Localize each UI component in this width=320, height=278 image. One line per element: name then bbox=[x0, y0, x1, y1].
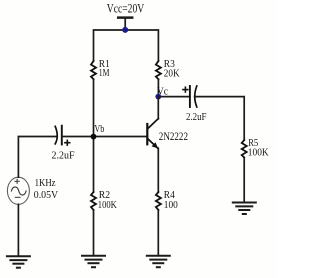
svg-text:2.2uF: 2.2uF bbox=[52, 150, 75, 161]
wire R3 bottom to Vc bbox=[157, 79, 159, 96]
transistor Q1 emitter diagonal bbox=[148, 139, 158, 149]
capacitor C2 straight plate bbox=[189, 86, 191, 107]
svg-text:100: 100 bbox=[164, 200, 178, 211]
resistor R5 bbox=[242, 140, 247, 158]
svg-text:1M: 1M bbox=[99, 68, 110, 79]
capacitor C1 curved plate bbox=[55, 126, 57, 144]
ground (under R2) bbox=[82, 256, 105, 268]
wire R5 to ground bbox=[243, 158, 245, 203]
svg-text:20K: 20K bbox=[164, 69, 180, 80]
AC source - mark bbox=[15, 196, 20, 198]
wire R1 bottom to Vb bbox=[93, 79, 95, 192]
wire source top to input line bbox=[18, 137, 55, 178]
resistor R2 bbox=[91, 192, 96, 210]
svg-text:2N2222: 2N2222 bbox=[159, 130, 188, 143]
AC source + mark bbox=[15, 179, 19, 183]
AC source sine wave bbox=[11, 187, 26, 195]
wire R4 to ground bbox=[157, 210, 159, 256]
label + (input cap polarity) bbox=[65, 140, 70, 145]
resistor R3 bbox=[156, 61, 161, 79]
wire cap to R5 branch bbox=[195, 97, 245, 140]
svg-text:Vcc=20V: Vcc=20V bbox=[107, 2, 145, 16]
node Vc junction dot bbox=[155, 94, 161, 100]
svg-text:1KHz: 1KHz bbox=[35, 178, 56, 189]
transistor Q1 emitter arrowhead bbox=[152, 142, 159, 148]
transistor Q1 base bar bbox=[146, 124, 148, 144]
resistor R1 bbox=[91, 61, 96, 79]
svg-text:0.05V: 0.05V bbox=[34, 190, 59, 201]
svg-text:2.2uF: 2.2uF bbox=[186, 112, 207, 123]
wire cap to transistor base bbox=[62, 136, 148, 138]
node Vcc junction dot bbox=[122, 27, 128, 33]
transistor Q1 collector diagonal bbox=[148, 119, 159, 129]
svg-text:100K: 100K bbox=[248, 148, 269, 159]
wire collector to Vc bbox=[157, 97, 159, 119]
capacitor C2 curved plate bbox=[195, 86, 197, 107]
svg-text:Vb: Vb bbox=[94, 124, 104, 135]
node Vb junction dot bbox=[91, 134, 97, 140]
wire R2 to ground bbox=[93, 210, 95, 256]
wire source bottom to ground bbox=[17, 204, 19, 256]
ground (under R5) bbox=[233, 203, 256, 215]
ground (under R4) bbox=[147, 256, 170, 268]
Vcc terminal bar bbox=[118, 16, 132, 19]
wire emitter to R4 bbox=[157, 148, 159, 192]
AC source V1 circle bbox=[7, 177, 29, 204]
label + (output cap polarity) bbox=[183, 87, 188, 92]
wire Vcc stub bbox=[124, 18, 126, 30]
wire top rail bbox=[94, 30, 159, 61]
capacitor C1 straight plate bbox=[61, 126, 63, 145]
svg-text:100K: 100K bbox=[98, 200, 117, 211]
resistor R4 bbox=[156, 192, 161, 210]
ground (under source) bbox=[7, 256, 30, 268]
wire Vc to output capacitor bbox=[158, 96, 190, 98]
